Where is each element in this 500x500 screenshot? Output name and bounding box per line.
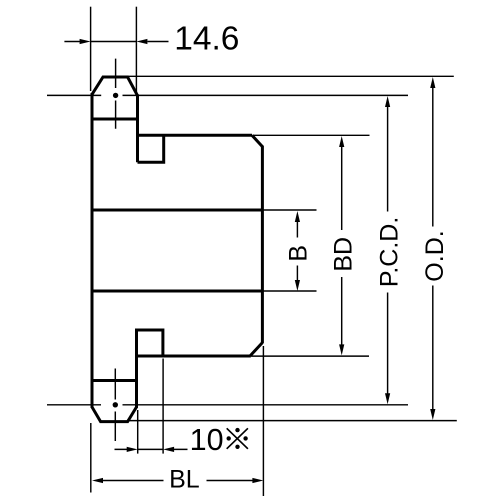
svg-text:BD: BD (330, 237, 358, 272)
arrow P.C.D. bottom (385, 393, 390, 404)
arrow 14.6 right (136, 39, 147, 44)
reference mark (227, 428, 248, 449)
pitch centerline bottom (P.C.D. extension) (47, 404, 408, 406)
BL extension left (90, 423, 92, 493)
hub bottom edge (135, 355, 251, 358)
extension line 10 right (162, 359, 164, 454)
hub top chamfer (252, 135, 262, 146)
arrow BD bottom (339, 344, 344, 355)
arrow O.D. top (430, 77, 435, 88)
bore extension top (262, 209, 316, 211)
extension line 10 left (137, 410, 139, 454)
O.D. dim line (432, 86, 434, 411)
svg-text:BL: BL (169, 465, 200, 493)
plate right edge lower (135, 330, 138, 408)
hub bottom chamfer (250, 343, 262, 356)
arrow BL right (252, 478, 263, 483)
BL extension right (262, 346, 264, 496)
svg-text:P.C.D.: P.C.D. (376, 217, 404, 287)
svg-text:10: 10 (190, 423, 224, 457)
top tooth vertical centerline (115, 59, 117, 129)
arrow B bottom (295, 280, 300, 291)
hub lower notch (137, 330, 163, 356)
hub right edge (261, 146, 264, 344)
pitch centerline top (P.C.D. extension) (47, 94, 408, 96)
hub top edge (136, 134, 252, 137)
arrow BL left (92, 478, 103, 483)
O.D. extension top (128, 75, 454, 77)
dim line 14.6 (64, 41, 168, 43)
bore extension bottom (262, 290, 316, 292)
top tooth (92, 77, 138, 96)
BD extension bottom (252, 355, 370, 357)
plate right edge upper (136, 94, 139, 162)
BD dim line (341, 145, 343, 346)
arrow B top (295, 211, 300, 222)
bottom tooth vertical centerline (114, 369, 116, 442)
arrowheads (80, 39, 436, 483)
BD extension top (253, 134, 370, 136)
sprocket body outline (92, 77, 262, 422)
center dot bottom tooth (113, 402, 118, 407)
plate left edge (91, 93, 94, 408)
arrow 10 left (127, 447, 138, 452)
tooth root line top (92, 118, 138, 121)
center dot top tooth (113, 93, 118, 98)
svg-text:O.D.: O.D. (421, 230, 449, 281)
svg-text:B: B (284, 245, 312, 262)
P.C.D. dim line (387, 105, 389, 395)
O.D. extension bottom (128, 420, 457, 422)
B dim line (296, 220, 298, 282)
arrow O.D. bottom (430, 409, 435, 420)
bottom tooth (92, 407, 137, 422)
extension line left face top (90, 7, 92, 91)
arrow 10 right (163, 447, 174, 452)
bore top line (92, 209, 262, 212)
bore bottom line (92, 290, 262, 293)
hub upper notch (138, 135, 164, 162)
arrow BD top (339, 136, 344, 147)
extension line right face top (135, 7, 137, 94)
svg-text:14.6: 14.6 (174, 21, 239, 58)
dim line 10 (115, 448, 188, 450)
arrow P.C.D. top (385, 96, 390, 107)
arrow 14.6 left (80, 39, 91, 44)
BL dim line (103, 480, 253, 482)
tooth root line bottom (92, 379, 137, 382)
